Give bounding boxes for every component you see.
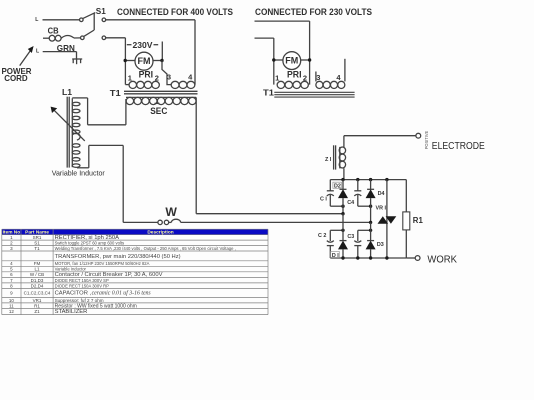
svg-text:D2: D2 (334, 184, 341, 190)
svg-text:D2,D4: D2,D4 (31, 283, 44, 288)
svg-text:10: 10 (9, 298, 15, 303)
svg-text:D4: D4 (378, 191, 385, 197)
svg-text:3: 3 (167, 73, 171, 82)
svg-text:FM: FM (34, 261, 41, 266)
svg-text:TRANSFORMER, pwr main 220/380/: TRANSFORMER, pwr main 220/380/440 (50 Hz… (55, 254, 181, 260)
svg-text:CONNECTED FOR 400 VOLTS: CONNECTED FOR 400 VOLTS (117, 7, 233, 17)
svg-text:L1: L1 (62, 87, 72, 97)
svg-text:C4: C4 (347, 200, 354, 206)
svg-text:C1,C2,C3,C4: C1,C2,C3,C4 (24, 291, 51, 296)
svg-text:FM: FM (138, 56, 151, 66)
svg-text:3: 3 (316, 73, 320, 82)
svg-text:L1: L1 (35, 267, 41, 272)
svg-text:DIODE RECT 150A 300V RP: DIODE RECT 150A 300V RP (55, 283, 110, 288)
svg-text:D I: D I (332, 253, 339, 259)
svg-text:CORD: CORD (4, 73, 28, 83)
svg-text:12: 12 (9, 309, 15, 314)
svg-text:WORK: WORK (427, 254, 457, 265)
svg-text:T1: T1 (263, 87, 274, 97)
svg-text:MOTOR, fan 1/12HP 230V 1550RPM: MOTOR, fan 1/12HP 230V 1550RPM 50/60Hz 8… (55, 261, 150, 266)
svg-text:W: W (165, 205, 177, 219)
svg-text:Suppressor: fuf 2 7 ohm: Suppressor: fuf 2 7 ohm (55, 298, 104, 303)
svg-text:VR I: VR I (376, 206, 387, 212)
svg-text:T1: T1 (34, 246, 40, 251)
svg-text:C I: C I (320, 197, 327, 203)
svg-text:T1: T1 (110, 88, 121, 98)
svg-text:C 2: C 2 (318, 233, 326, 239)
svg-text:Description: Description (147, 229, 173, 235)
svg-text:Z1: Z1 (34, 309, 40, 314)
svg-text:DIODE RECT 150A 300V SP: DIODE RECT 150A 300V SP (55, 278, 109, 283)
svg-text:PRI: PRI (139, 70, 154, 81)
svg-text:Variable Inductor: Variable Inductor (55, 267, 87, 272)
svg-text:PRI: PRI (287, 69, 302, 80)
svg-text:SR1: SR1 (33, 235, 42, 240)
svg-text:R1: R1 (413, 216, 424, 225)
svg-text:Welding Transformer , 7.5 KVA: Welding Transformer , 7.5 KVA ,230 /440 … (55, 246, 236, 251)
svg-text:R1: R1 (34, 303, 40, 308)
svg-text:FM: FM (285, 56, 298, 66)
svg-text:VR1: VR1 (33, 298, 42, 303)
svg-text:CAPACITOR ,: CAPACITOR , (55, 291, 92, 297)
svg-text:S1: S1 (34, 240, 40, 245)
svg-text:CB: CB (48, 27, 59, 36)
svg-text:SEC: SEC (150, 106, 167, 117)
svg-text:W / CB: W / CB (30, 272, 44, 277)
svg-text:ELECTRODE: ELECTRODE (432, 141, 485, 152)
svg-text:Variable Inductor: Variable Inductor (52, 170, 106, 177)
svg-text:ceramic 0.01 uf 3-16 tens: ceramic 0.01 uf 3-16 tens (92, 290, 152, 297)
svg-text:D1,D3: D1,D3 (31, 278, 44, 283)
svg-text:Switch toggle 2PST 60 amp 600: Switch toggle 2PST 60 amp 600 volts (55, 240, 125, 245)
svg-text:C3: C3 (347, 234, 354, 240)
svg-text:S1: S1 (96, 7, 106, 16)
svg-text:230V: 230V (133, 41, 154, 50)
svg-text:D3: D3 (377, 242, 384, 248)
svg-text:11: 11 (9, 303, 14, 308)
svg-text:POSITIVE: POSITIVE (424, 131, 429, 150)
svg-text:STABILIZER: STABILIZER (55, 309, 88, 315)
svg-text:CONNECTED FOR 230 VOLTS: CONNECTED FOR 230 VOLTS (255, 7, 372, 17)
svg-text:Z I: Z I (325, 157, 332, 163)
